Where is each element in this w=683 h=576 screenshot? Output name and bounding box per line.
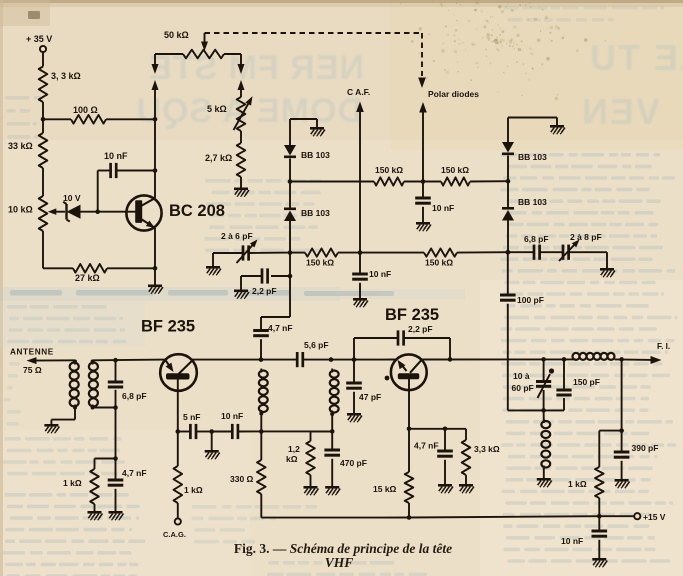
ground under C8 — [109, 511, 123, 514]
svg-text:100 Ω: 100 Ω — [73, 105, 98, 115]
Q2 base wire down — [177, 380, 179, 432]
transistor Q2 BF 235 — [160, 354, 197, 391]
ground under C15 — [438, 484, 452, 487]
svg-text:BF 235: BF 235 — [385, 306, 439, 324]
wire R18 to ground — [465, 475, 467, 484]
wire D5 down to node E — [507, 221, 509, 253]
wire to oscillator tank — [508, 409, 564, 411]
capacitor C12 470 pF — [331, 431, 333, 450]
node 150 pF top — [562, 357, 567, 362]
svg-text:10 nF: 10 nF — [369, 269, 391, 279]
ground right of CV2 — [600, 268, 614, 271]
wire with up arrow to 5k — [238, 80, 245, 90]
node R17 on rail — [407, 515, 412, 520]
ground above left varactors — [310, 127, 324, 130]
ground under C2 — [416, 222, 430, 225]
node collector feedback junction — [448, 357, 453, 362]
wire primary to ground — [74, 408, 76, 420]
svg-text:BF 235: BF 235 — [141, 318, 195, 336]
resistor R18 3,3 kΩ — [465, 429, 467, 440]
wire node to R19 — [599, 430, 621, 432]
wire R7 to R8 — [240, 131, 242, 143]
wire node D down to 2,2 pF branch — [289, 253, 291, 276]
capacitor C5 2,2 pF — [271, 275, 290, 277]
capacitor C13 2,2 pF — [397, 330, 400, 345]
+15V terminal — [634, 513, 640, 519]
capacitor C14 47 pF — [353, 360, 355, 383]
resistor R15 330 Ω — [257, 460, 266, 494]
svg-text:10 nF: 10 nF — [104, 151, 128, 161]
svg-text:1 kΩ: 1 kΩ — [184, 485, 203, 495]
wire C1 to collector rail — [116, 170, 155, 172]
svg-text:4,7 nF: 4,7 nF — [122, 468, 147, 478]
svg-text:150 kΩ: 150 kΩ — [375, 165, 403, 175]
ground under C9/C10 node — [205, 450, 219, 453]
capacitor C1 10 nF — [109, 163, 112, 178]
resistor R19 1 kΩ — [595, 467, 604, 498]
wire node down to C16 — [507, 252, 509, 295]
resistor R8 2,7 kΩ — [237, 143, 246, 177]
adjust arrow of R7 — [234, 102, 250, 131]
wire ground to trimmer — [212, 253, 214, 266]
wire secondary top to RF node — [93, 359, 165, 362]
node 2,2 pF junction — [288, 274, 293, 279]
variable capacitor CV3 10 à 60 pF — [543, 359, 545, 381]
wire top of left varactor pair to ground — [289, 119, 291, 146]
svg-text:10 nF: 10 nF — [221, 411, 243, 421]
wire L1 to node F — [260, 414, 262, 432]
svg-text:6,8 pF: 6,8 pF — [524, 234, 549, 244]
wire R3 to potentiometer — [42, 168, 44, 196]
svg-text:1 kΩ: 1 kΩ — [63, 478, 82, 488]
Q3 emitter wire down — [408, 379, 410, 429]
svg-text:2,2 pF: 2,2 pF — [408, 324, 433, 334]
capacitor C10 10 nF — [212, 431, 233, 433]
wire C11 to L2 node — [303, 359, 354, 361]
resistor R1 3,3 kΩ — [39, 67, 48, 103]
transformer T1 secondary coil — [92, 361, 94, 365]
node bottom of primary — [73, 406, 77, 410]
capacitor C6 4,7 nF — [253, 329, 269, 332]
wire trimmer to node D — [249, 252, 290, 254]
capacitor C15 4,7 nF — [444, 429, 446, 451]
node FI output junction — [619, 357, 624, 362]
svg-text:BC 208: BC 208 — [169, 202, 225, 220]
resistor R10 150 kΩ — [441, 177, 470, 185]
svg-text:Fig. 3. — Schéma de princip: Fig. 3. — Schéma de principe de la tête — [234, 541, 452, 556]
dashed control line to Polar diodes — [205, 32, 423, 34]
svg-text:10 nF: 10 nF — [561, 536, 583, 546]
antenna input arrow — [27, 357, 37, 364]
svg-text:150 kΩ: 150 kΩ — [425, 258, 453, 268]
ground under antenna coil — [44, 424, 58, 427]
svg-text:27 kΩ: 27 kΩ — [75, 273, 100, 283]
svg-text:3, 3 kΩ: 3, 3 kΩ — [51, 71, 81, 81]
wire base to BC208 — [98, 211, 136, 213]
varactor D4 BB 103 — [502, 142, 514, 153]
svg-text:150 pF: 150 pF — [573, 377, 600, 387]
wire CV2 to ground — [569, 251, 607, 253]
ground under R13 — [88, 511, 102, 514]
wire R17 to bottom rail — [408, 503, 410, 518]
node RF input junction — [113, 358, 118, 363]
node collector rail / R2 junction — [153, 117, 158, 122]
node zener-base junction — [95, 209, 100, 214]
resistor R17 15 kΩ — [408, 429, 410, 472]
wire emitter node to C15 — [409, 428, 466, 430]
svg-text:BB 103: BB 103 — [518, 152, 547, 162]
wire pot bottom to R5 — [42, 231, 44, 268]
wire R1 to node A — [42, 102, 44, 133]
arrow end of dashed line — [418, 78, 426, 89]
ground under BC208 — [148, 285, 162, 288]
wire 50k pot left arm with down arrow — [155, 53, 183, 55]
node bias junction — [113, 456, 118, 461]
node G junction — [330, 429, 335, 434]
wire node B to ground — [154, 268, 156, 284]
node L2 top on RF line — [329, 357, 334, 362]
inductor L1 — [260, 369, 262, 373]
svg-text:Polar diodes: Polar diodes — [428, 89, 479, 99]
varactor D3 BB 103 — [284, 211, 296, 222]
ground under C5 — [234, 290, 248, 293]
node top of secondary — [91, 360, 95, 364]
node A junction — [41, 117, 46, 122]
wire to R13 — [95, 458, 116, 460]
wire node to ground — [211, 432, 213, 451]
svg-text:330 Ω: 330 Ω — [230, 474, 254, 484]
node below C7 — [113, 405, 118, 410]
svg-text:4,7 nF: 4,7 nF — [414, 441, 439, 451]
RF line from Q2 collector — [192, 359, 297, 361]
ground under C12 — [325, 486, 339, 489]
wire secondary bottom to C7 — [93, 407, 116, 409]
node R19 on rail — [597, 514, 602, 519]
ground under L3 — [537, 478, 551, 481]
svg-text:VHF: VHF — [325, 555, 354, 570]
capacitor C2 10 nF decoupling — [422, 182, 424, 199]
svg-text:47 pF: 47 pF — [359, 392, 381, 402]
svg-text:10 V: 10 V — [63, 193, 81, 203]
node B junction — [153, 266, 158, 271]
node C15 junction — [443, 427, 448, 432]
transistor Q1 BC 208 — [126, 195, 161, 230]
wire junction up to C1 — [97, 171, 99, 212]
wire C9 to ground node — [196, 431, 212, 433]
wire R15 to bottom rail — [260, 494, 262, 518]
wire emitter down to node B — [154, 228, 156, 268]
svg-text:2 à 6 pF: 2 à 6 pF — [221, 231, 253, 241]
node Q2 base junction — [176, 429, 181, 434]
svg-text:390 pF: 390 pF — [632, 443, 659, 453]
svg-text:150 kΩ: 150 kΩ — [306, 258, 334, 268]
FI coupling inductor L4 — [573, 353, 580, 360]
svg-text:BB 103: BB 103 — [518, 197, 547, 207]
wire R14 to C.A.G. terminal — [177, 503, 179, 518]
wire L2 bottom to node G — [331, 414, 333, 431]
wire node F to R15 — [260, 432, 262, 461]
wire D3 down to node D — [289, 221, 291, 253]
capacitor C7 6,8 pF — [115, 360, 117, 382]
node oscillator feedback on varactor line — [506, 250, 511, 255]
svg-text:BB 103: BB 103 — [301, 150, 330, 160]
node C varactor junction — [288, 179, 293, 184]
node 390 pF junction — [619, 428, 624, 433]
svg-text:VEN: VEN — [580, 91, 660, 132]
svg-text:1,2: 1,2 — [288, 444, 300, 454]
resistor R14 1 kΩ — [174, 466, 183, 503]
node tank bottom junction — [541, 408, 546, 413]
ground under C19 — [592, 558, 606, 561]
node on collector rail — [153, 168, 158, 173]
node tank top on RF line — [541, 357, 546, 362]
wire R16 to ground — [310, 475, 312, 486]
node top of primary — [73, 360, 77, 364]
wire Q2 base to R14 — [177, 432, 179, 467]
svg-text:10 à: 10 à — [513, 371, 530, 381]
transformer T1 primary coil — [74, 361, 76, 365]
svg-text:150 kΩ: 150 kΩ — [441, 165, 469, 175]
svg-text:DOME A SQU: DOME A SQU — [135, 92, 362, 130]
wire node D to R11 — [290, 252, 305, 254]
svg-text:100 pF: 100 pF — [517, 295, 544, 305]
node D junction — [288, 250, 293, 255]
wire C10 to node F — [238, 430, 332, 432]
wire FI node down — [621, 359, 623, 430]
ground under 2,7k — [234, 188, 248, 191]
capacitor C3 10 nF on CAF — [359, 253, 361, 274]
ground under R18 — [459, 484, 473, 487]
wiper arrow of R6 from dashed line — [204, 33, 206, 43]
wire 50k pot right arm with down arrow — [224, 53, 241, 55]
svg-text:60 pF: 60 pF — [512, 383, 534, 393]
C.A.G. terminal — [175, 518, 181, 524]
resistor R3 33 kΩ — [39, 133, 48, 168]
svg-text:6,8 pF: 6,8 pF — [122, 391, 147, 401]
rheostat R7 5 kΩ — [237, 97, 246, 131]
node between C9 and C10 — [209, 429, 214, 434]
wire C4 to CV2 — [540, 251, 563, 253]
transistor Q3 BF 235 — [391, 354, 427, 390]
svg-text:10 nF: 10 nF — [432, 203, 454, 213]
wire +35V down to R1 — [42, 52, 44, 66]
svg-text:75 Ω: 75 Ω — [23, 365, 42, 375]
capacitor C19 10 nF — [598, 516, 600, 531]
wire R19 to +15V rail — [598, 498, 600, 516]
node L2 bottom — [330, 412, 334, 416]
resistor R9 150 kΩ — [374, 177, 404, 185]
collector rail x=155 with up arrow — [152, 80, 159, 90]
node polar diodes junction — [421, 179, 426, 184]
wire L3 to ground — [543, 468, 545, 479]
svg-text:5 nF: 5 nF — [183, 412, 200, 422]
wire node down to C6 — [289, 276, 291, 317]
svg-text:2 à 8 pF: 2 à 8 pF — [570, 232, 602, 242]
svg-text:3,3 kΩ: 3,3 kΩ — [474, 444, 500, 454]
node emitter junction — [407, 427, 412, 432]
wire R8 to ground — [240, 177, 242, 188]
node E junction — [506, 250, 511, 255]
capacitor C16 100 pF — [500, 294, 516, 297]
svg-text:470 pF: 470 pF — [340, 458, 367, 468]
zener diode D1 10 V — [67, 205, 81, 219]
svg-text:BB 103: BB 103 — [301, 208, 330, 218]
wire D2 to node C — [289, 159, 291, 208]
wire R10 to right varactor node — [470, 180, 508, 182]
capacitor C17 150 pF — [563, 359, 565, 390]
potentiometer R4 10 kΩ — [39, 196, 48, 231]
svg-text:ANTENNE: ANTENNE — [10, 348, 54, 357]
trimmer capacitor CV2 2 à 8 pF — [562, 245, 565, 260]
RF line from Q3 to FI section — [421, 358, 576, 360]
bottom +15V rail — [261, 516, 634, 517]
svg-text:F. I.: F. I. — [657, 342, 670, 351]
oscillator inductor L3 — [543, 410, 545, 421]
node L1 bottom — [259, 412, 263, 416]
svg-text:LE TU: LE TU — [588, 37, 683, 78]
potentiometer R6 50 kΩ — [183, 50, 224, 59]
capacitor C8 4,7 nF — [115, 459, 117, 481]
svg-text:10 kΩ: 10 kΩ — [8, 205, 33, 215]
svg-text:2,7 kΩ: 2,7 kΩ — [205, 153, 232, 163]
wire R11 to CAF node — [338, 252, 424, 254]
svg-text:kΩ: kΩ — [286, 454, 298, 464]
wiper arrow of R4 — [52, 211, 65, 213]
node CAF junction — [358, 250, 363, 255]
ground above right varactors — [550, 125, 564, 128]
node F junction — [259, 429, 264, 434]
resistor R5 27 kΩ — [43, 267, 73, 269]
capacitor C4 6,8 pF — [533, 245, 536, 260]
svg-text:C A.F.: C A.F. — [347, 87, 370, 97]
capacitor C11 5,6 pF — [296, 352, 299, 367]
svg-text:5,6 pF: 5,6 pF — [304, 340, 329, 350]
node bottom of secondary — [91, 406, 95, 410]
svg-text:15 kΩ: 15 kΩ — [373, 484, 397, 494]
wire R9 to polar node — [404, 181, 441, 183]
node L1 top on RF line — [259, 357, 264, 362]
wire up to C13 — [353, 338, 355, 360]
svg-text:+ 35 V: + 35 V — [26, 34, 52, 44]
wire C7 node down to bias node — [115, 408, 117, 459]
svg-text:4,7 nF: 4,7 nF — [268, 323, 293, 333]
wire C6 to RF line — [260, 339, 262, 359]
node +35V supply terminal — [40, 46, 46, 52]
svg-text:33 kΩ: 33 kΩ — [8, 141, 33, 151]
svg-text:50 kΩ: 50 kΩ — [164, 30, 189, 40]
resistor R11 150 kΩ — [305, 249, 338, 257]
capacitor C9 5 nF — [178, 431, 191, 433]
wire R13 to ground — [94, 504, 96, 511]
wire RF line into Q3 — [354, 359, 397, 361]
resistor R12 150 kΩ — [424, 249, 457, 257]
FI output arrow — [615, 358, 652, 361]
varactor D2 BB 103 — [284, 145, 296, 156]
inductor L2 — [331, 369, 333, 373]
wire top of right varactor pair to ground — [507, 118, 509, 144]
wire node C to R9 — [290, 181, 374, 183]
wire node E to C4 — [508, 251, 534, 253]
svg-text:C.A.G.: C.A.G. — [163, 530, 186, 539]
capacitor C18 390 pF — [621, 431, 623, 452]
resistor R16 1,2 kΩ — [306, 441, 315, 475]
wire C16 down across RF line — [507, 304, 509, 411]
Q3 base side blob — [385, 376, 390, 381]
node right varactor junction — [506, 179, 511, 184]
node mixer coupling junction — [352, 357, 357, 362]
resistor R13 1 kΩ — [90, 469, 99, 504]
ground under C14 — [347, 413, 361, 416]
varactor D5 BB 103 — [502, 210, 514, 221]
svg-text:2,2 pF: 2,2 pF — [252, 286, 277, 296]
ground under R16 — [304, 486, 318, 489]
svg-text:5 kΩ: 5 kΩ — [207, 104, 227, 114]
trimmer capacitor CV1 2 à 6 pF — [242, 245, 245, 260]
ground of 2 à 6 pF trimmer — [206, 266, 220, 269]
wire node G to R16 — [311, 430, 333, 432]
svg-text:1 kΩ: 1 kΩ — [568, 479, 587, 489]
ground under C18 — [615, 479, 629, 482]
wire D4 to D5 — [507, 156, 509, 208]
resistor R2 100 Ω — [43, 118, 71, 120]
svg-text:+15 V: +15 V — [643, 512, 666, 522]
ground under C3 — [353, 298, 367, 301]
wire C13 to collector node — [404, 337, 450, 339]
wire R12 to node E — [457, 251, 508, 253]
